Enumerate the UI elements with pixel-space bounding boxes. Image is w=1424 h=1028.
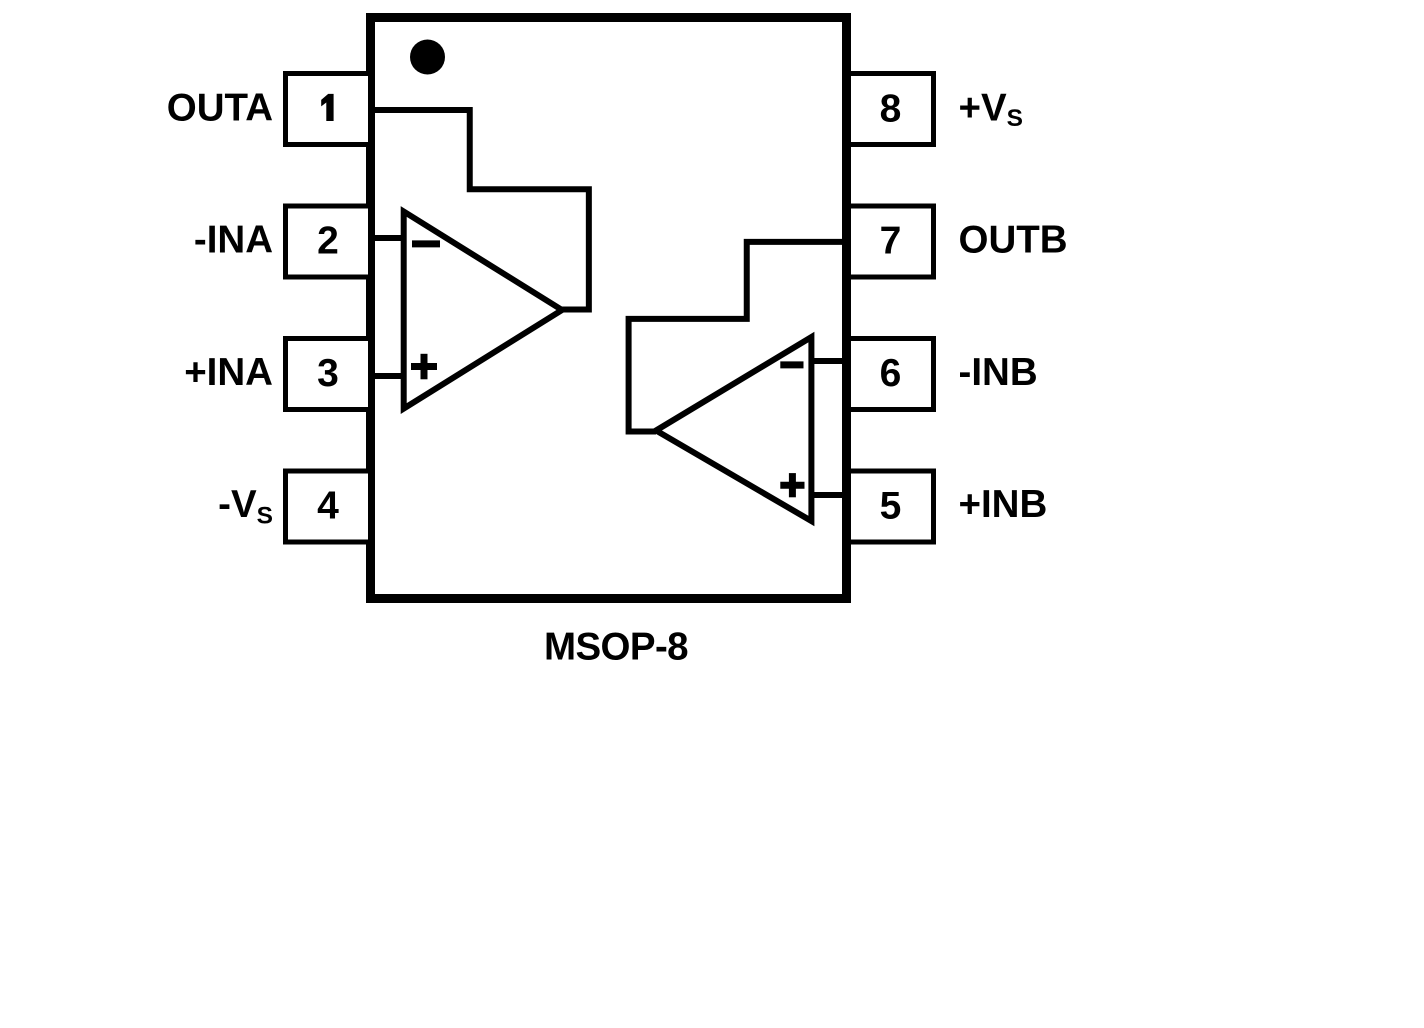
svg-text:-INA: -INA — [194, 219, 273, 262]
svg-text:OUTA: OUTA — [167, 87, 273, 130]
svg-text:7: 7 — [880, 220, 902, 263]
svg-text:-INB: -INB — [959, 351, 1038, 394]
svg-text:MSOP-8: MSOP-8 — [544, 625, 688, 668]
svg-text:+INB: +INB — [959, 483, 1048, 526]
svg-text:OUTB: OUTB — [959, 219, 1068, 262]
svg-text:-VS: -VS — [218, 483, 273, 530]
svg-text:+VS: +VS — [959, 87, 1024, 133]
svg-text:2: 2 — [317, 220, 339, 263]
svg-text:8: 8 — [880, 88, 902, 131]
svg-text:3: 3 — [317, 352, 339, 395]
svg-text:4: 4 — [317, 485, 339, 528]
svg-text:+INA: +INA — [184, 351, 273, 394]
svg-text:5: 5 — [880, 485, 902, 528]
svg-text:6: 6 — [880, 352, 902, 395]
